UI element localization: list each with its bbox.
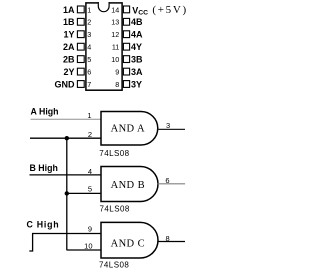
pin 5 box [77,56,84,63]
wire A input pin1 [31,118,102,120]
pin 9 box [123,68,129,75]
junction dot on pin5 wire [65,191,69,195]
svg-text:1A: 1A [63,5,75,15]
pin 4 box [77,43,84,50]
svg-text:B High: B High [30,163,58,173]
wire B input pin4 [30,174,102,176]
svg-text:9: 9 [88,225,92,234]
svg-text:12: 12 [111,30,119,39]
IC U1 74LS08 body [86,3,122,90]
svg-text:4: 4 [88,167,92,176]
svg-text:10: 10 [111,55,119,64]
IC notch [98,2,109,12]
svg-text:4A: 4A [131,30,143,40]
svg-text:2: 2 [88,130,92,139]
pin 3 box [77,31,84,38]
svg-text:C High: C High [27,220,60,230]
svg-text:AND C: AND C [111,239,145,250]
pin 10 box [123,56,129,63]
svg-text:4Y: 4Y [131,42,142,52]
pin 6 box [77,68,84,75]
svg-text:74LS08: 74LS08 [99,261,129,270]
pin 2 box [77,18,84,25]
wire C input pin9 [32,233,101,235]
svg-text:3: 3 [87,30,91,39]
pin 14 box [123,6,129,13]
svg-text:3Y: 3Y [131,79,142,89]
wire node input pin10 [67,249,102,251]
AND gate B [101,167,158,202]
svg-text:2Y: 2Y [63,67,74,77]
svg-text:AND B: AND B [111,180,145,191]
wire output pin8 [158,241,185,243]
svg-text:1: 1 [87,111,91,120]
pin 13 box [123,18,129,25]
svg-text:2B: 2B [63,55,75,65]
wire output pin3 [158,128,186,130]
svg-text:(+5V): (+5V) [152,4,187,16]
svg-text:14: 14 [111,5,119,14]
AND gate A [101,112,158,146]
svg-text:74LS08: 74LS08 [100,205,130,214]
C step waveform symbol [29,234,32,252]
svg-text:13: 13 [111,18,119,27]
pin 7 box [77,81,84,88]
svg-text:3A: 3A [131,67,143,77]
svg-text:3: 3 [166,121,170,130]
pin 1 box [77,6,84,13]
svg-text:1: 1 [87,5,91,14]
svg-text:1Y: 1Y [63,30,74,40]
svg-text:8: 8 [115,80,119,89]
pin 12 box [123,31,129,38]
svg-text:AND A: AND A [111,124,145,135]
svg-text:1B: 1B [63,17,75,27]
node bus vertical wire [66,138,68,250]
svg-text:5: 5 [88,184,92,193]
svg-text:6: 6 [87,68,91,77]
pin 8 box [123,81,129,88]
svg-text:11: 11 [112,43,119,52]
svg-text:A High: A High [31,107,59,117]
AND gate C [101,222,158,258]
svg-text:GND: GND [55,79,76,89]
junction dot on pin2 wire [65,136,69,140]
wire node input pin2 [30,137,101,139]
svg-text:2: 2 [87,18,91,27]
wire node input pin5 [67,192,101,194]
svg-text:4: 4 [87,43,91,52]
svg-text:8: 8 [166,234,170,243]
svg-text:9: 9 [115,68,119,77]
svg-text:4B: 4B [131,17,143,27]
pin 11 box [123,43,129,50]
svg-text:7: 7 [87,80,91,89]
svg-text:74LS08: 74LS08 [99,149,129,158]
svg-text:3B: 3B [131,55,143,65]
wire output pin6 [158,183,185,185]
svg-text:10: 10 [84,241,92,250]
svg-text:5: 5 [87,55,91,64]
svg-text:6: 6 [165,176,169,185]
svg-text:2A: 2A [63,42,75,52]
